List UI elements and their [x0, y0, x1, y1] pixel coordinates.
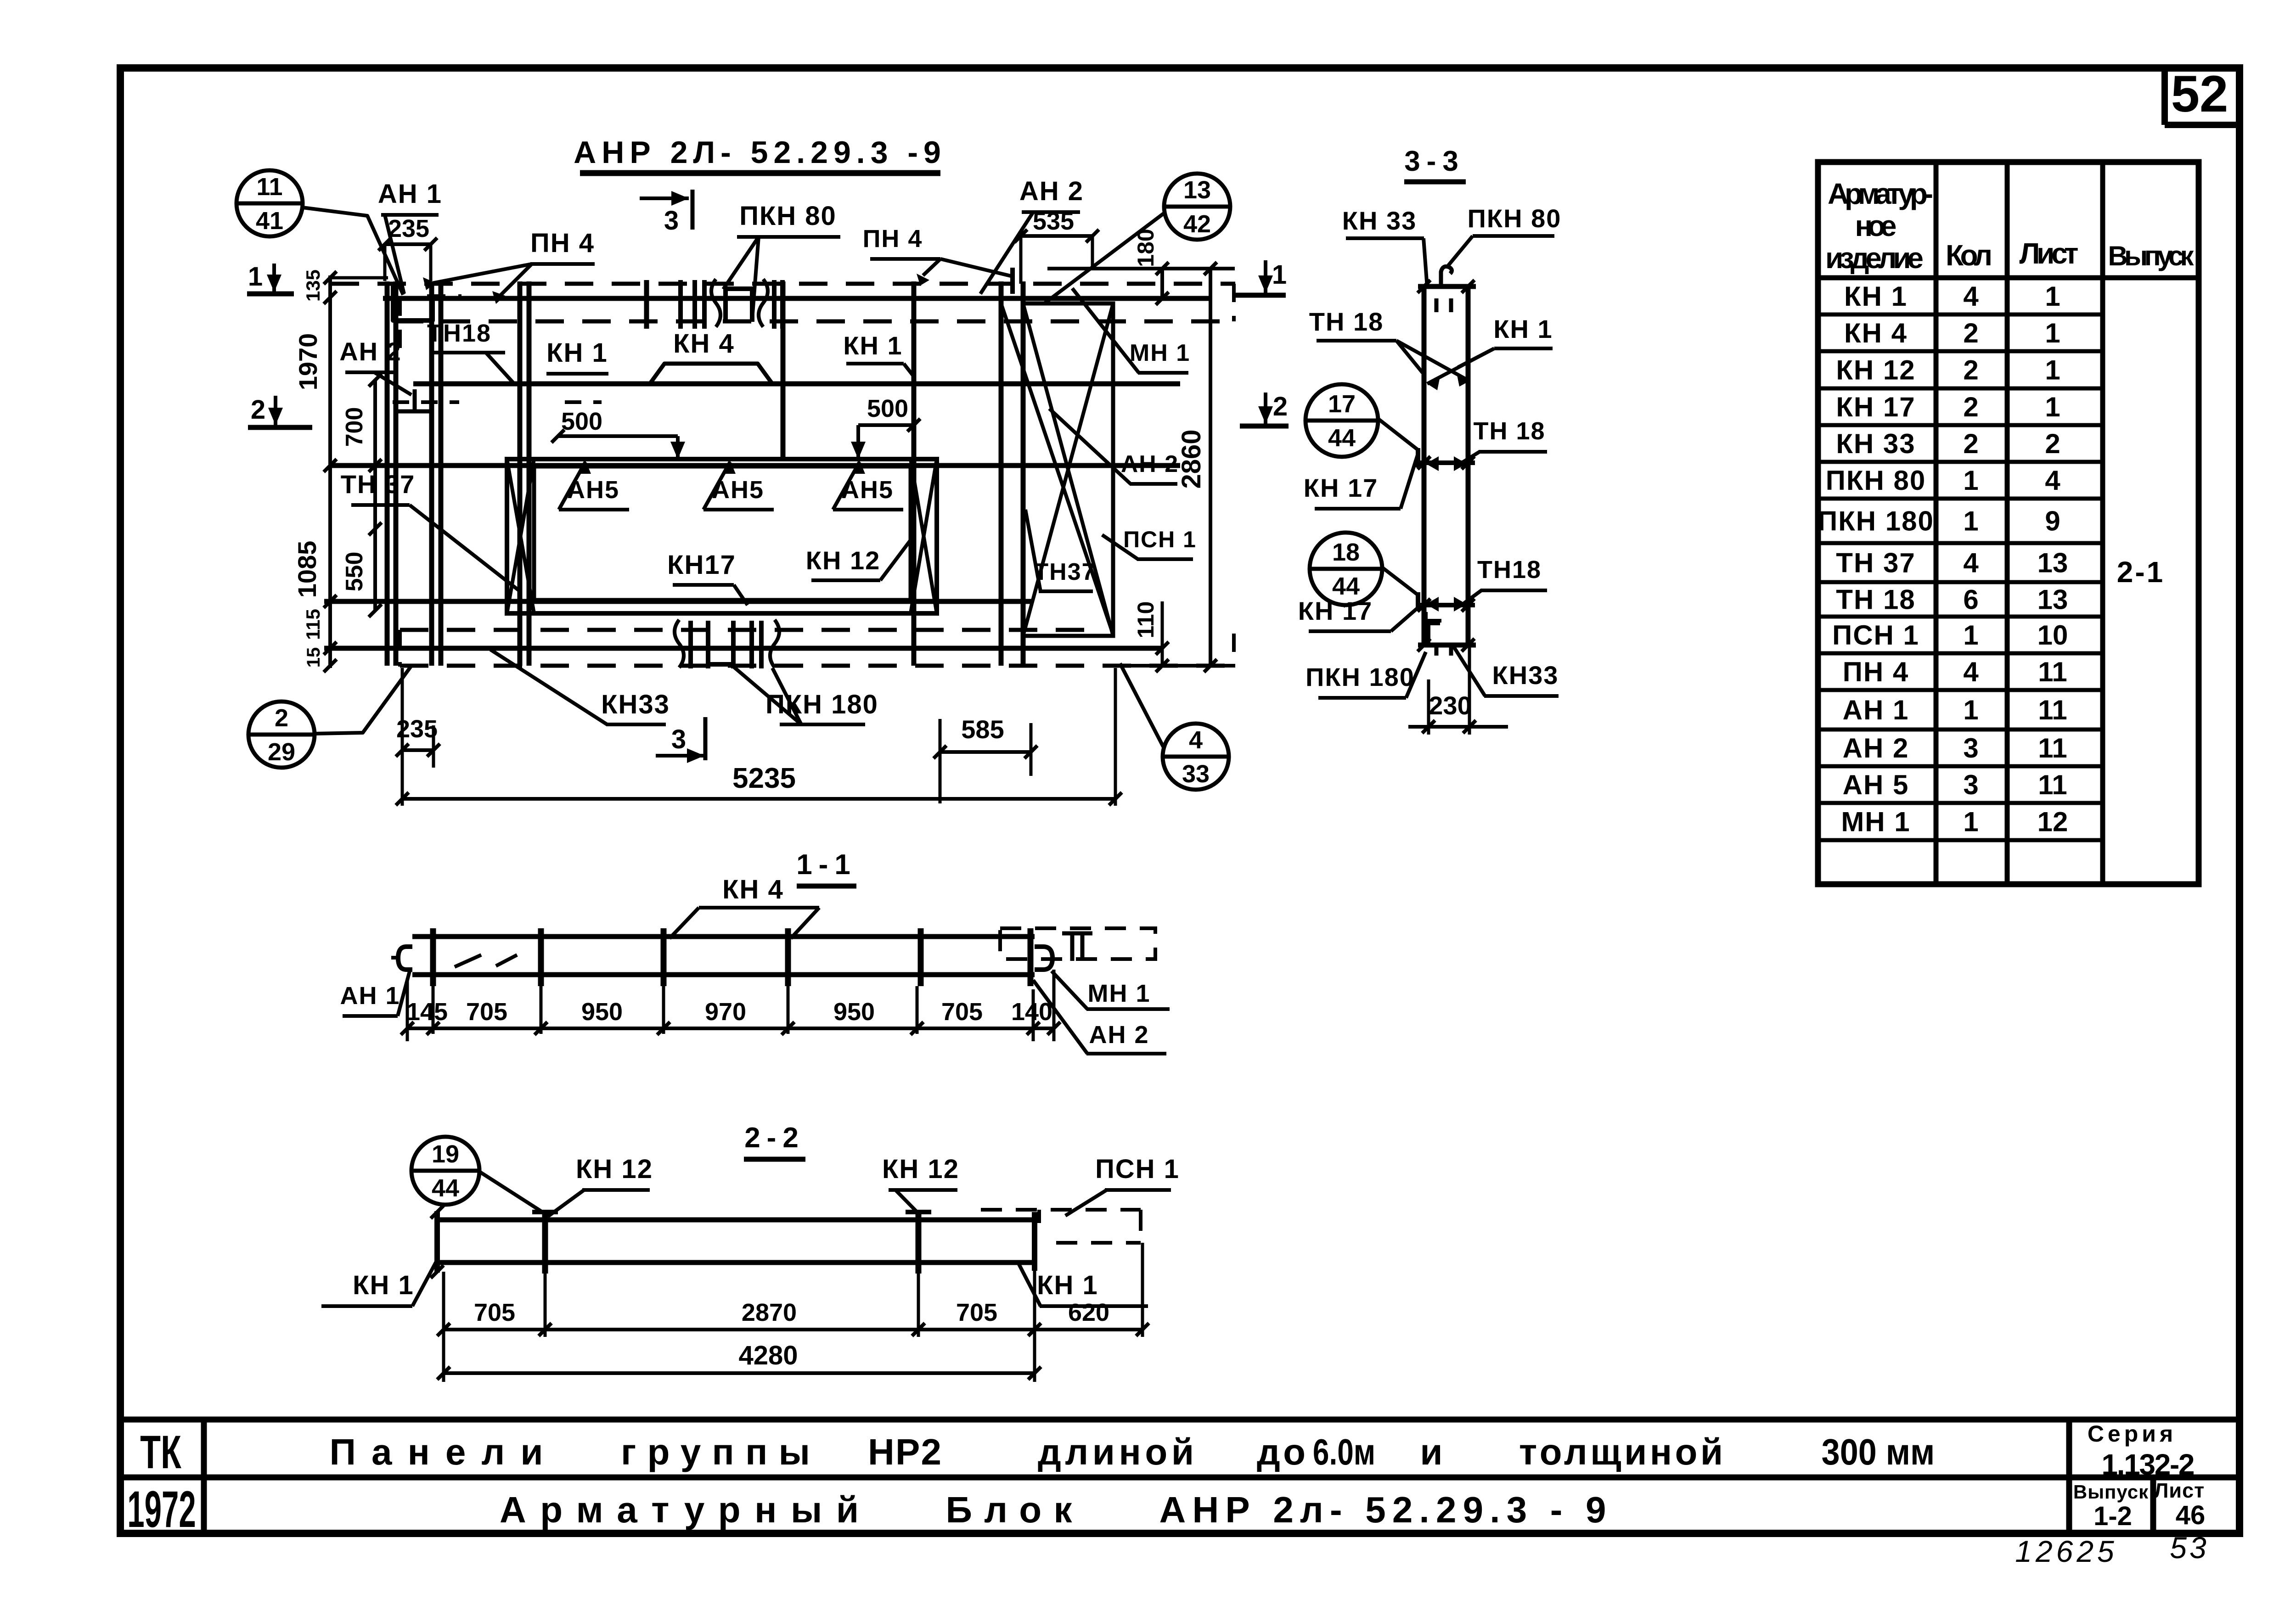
- svg-text:ПКН 180: ПКН 180: [1306, 662, 1415, 691]
- svg-text:КН 33: КН 33: [1836, 428, 1915, 459]
- svg-text:3-3: 3-3: [1404, 146, 1465, 177]
- svg-text:620: 620: [1068, 1299, 1109, 1326]
- svg-text:2-2: 2-2: [744, 1122, 805, 1154]
- svg-text:ТН18: ТН18: [427, 320, 491, 347]
- svg-text:17: 17: [1328, 390, 1356, 418]
- svg-text:550: 550: [341, 552, 368, 592]
- svg-text:ПКН 180: ПКН 180: [765, 690, 878, 719]
- svg-text:235: 235: [388, 215, 429, 242]
- svg-text:АН 2: АН 2: [1121, 451, 1179, 477]
- svg-text:33: 33: [1182, 760, 1210, 788]
- svg-text:700: 700: [341, 407, 368, 447]
- svg-text:2-1: 2-1: [2117, 556, 2165, 589]
- svg-text:ПКН 180: ПКН 180: [1818, 506, 1934, 537]
- svg-text:МН 1: МН 1: [1130, 340, 1190, 366]
- svg-text:18: 18: [1332, 539, 1360, 566]
- svg-text:КН 33: КН 33: [1342, 206, 1417, 235]
- svg-text:Выпуск: Выпуск: [2073, 1481, 2149, 1503]
- svg-text:13: 13: [2037, 548, 2068, 578]
- svg-text:КН 17: КН 17: [1298, 596, 1373, 625]
- svg-text:12: 12: [2037, 807, 2068, 837]
- svg-text:АН 1: АН 1: [378, 179, 442, 209]
- svg-text:ПКН 80: ПКН 80: [1468, 204, 1562, 233]
- svg-text:135: 135: [302, 269, 324, 302]
- svg-text:29: 29: [268, 738, 295, 766]
- svg-text:950: 950: [833, 998, 875, 1026]
- svg-text:705: 705: [474, 1299, 515, 1326]
- svg-text:950: 950: [581, 998, 623, 1026]
- svg-text:11: 11: [2038, 657, 2067, 687]
- svg-text:705: 705: [956, 1299, 997, 1326]
- svg-text:ПКН 80: ПКН 80: [1826, 465, 1926, 496]
- svg-text:180: 180: [1133, 229, 1159, 267]
- svg-text:10: 10: [2037, 620, 2068, 651]
- svg-text:КН 4: КН 4: [673, 329, 735, 359]
- svg-text:КН 1: КН 1: [353, 1270, 414, 1300]
- svg-text:ное: ное: [1855, 209, 1897, 242]
- svg-text:КН 1: КН 1: [1844, 281, 1908, 312]
- svg-text:ТН18: ТН18: [1477, 556, 1542, 584]
- svg-text:КН 4: КН 4: [1844, 318, 1908, 348]
- svg-text:АНР 2Л- 52.29.3 -9: АНР 2Л- 52.29.3 -9: [574, 135, 946, 170]
- svg-text:ПН 4: ПН 4: [1843, 657, 1909, 687]
- svg-text:толщиной: толщиной: [1519, 1431, 1723, 1472]
- svg-text:2: 2: [2045, 428, 2060, 459]
- svg-text:АН 5: АН 5: [1843, 769, 1909, 800]
- svg-text:41: 41: [256, 207, 283, 235]
- svg-text:3: 3: [1963, 769, 1978, 800]
- svg-text:1: 1: [2045, 318, 2060, 348]
- svg-text:КН 12: КН 12: [882, 1154, 959, 1184]
- svg-text:4280: 4280: [738, 1341, 798, 1370]
- svg-text:13: 13: [1183, 176, 1211, 204]
- svg-text:1970: 1970: [293, 333, 322, 391]
- svg-text:ПСН 1: ПСН 1: [1832, 620, 1919, 651]
- svg-text:Лист: Лист: [2154, 1479, 2205, 1502]
- svg-text:44: 44: [1332, 572, 1360, 600]
- svg-text:ПН 4: ПН 4: [530, 228, 595, 258]
- svg-text:585: 585: [961, 715, 1004, 744]
- svg-text:1: 1: [2045, 392, 2060, 422]
- svg-text:1: 1: [1272, 260, 1287, 290]
- svg-text:Кол: Кол: [1946, 239, 1992, 272]
- svg-text:6: 6: [1963, 584, 1978, 615]
- svg-text:АН 2: АН 2: [1843, 733, 1909, 763]
- svg-text:Выпуск: Выпуск: [2108, 241, 2195, 271]
- svg-text:11: 11: [256, 173, 282, 201]
- svg-text:ТН 37: ТН 37: [341, 470, 416, 499]
- svg-text:ТН 18: ТН 18: [1473, 417, 1545, 445]
- svg-text:ТН 18: ТН 18: [1309, 307, 1384, 336]
- svg-text:КН 12: КН 12: [806, 546, 880, 575]
- svg-text:5235: 5235: [732, 763, 796, 794]
- svg-text:АН 2: АН 2: [1089, 1021, 1149, 1049]
- svg-text:КН17: КН17: [667, 550, 736, 580]
- svg-text:НР2: НР2: [868, 1431, 941, 1472]
- svg-text:1: 1: [1963, 465, 1978, 496]
- svg-text:АНР 2л- 52.29.3 - 9: АНР 2л- 52.29.3 - 9: [1159, 1489, 1606, 1530]
- svg-text:АН 2: АН 2: [1019, 176, 1084, 206]
- svg-text:1085: 1085: [293, 541, 321, 598]
- svg-text:4: 4: [1963, 548, 1979, 578]
- svg-text:15: 15: [304, 647, 324, 668]
- svg-text:9: 9: [2045, 506, 2060, 537]
- svg-text:6.0м: 6.0м: [1313, 1431, 1375, 1472]
- svg-text:КН 1: КН 1: [1493, 314, 1553, 343]
- svg-text:ПКН 80: ПКН 80: [739, 201, 837, 231]
- svg-text:КН 1: КН 1: [1037, 1270, 1098, 1300]
- svg-text:КН 1: КН 1: [843, 331, 902, 360]
- svg-text:2860: 2860: [1176, 429, 1206, 488]
- svg-text:2: 2: [1963, 355, 1978, 386]
- svg-text:Лист: Лист: [2020, 237, 2079, 270]
- svg-text:500: 500: [867, 395, 908, 422]
- svg-text:1972: 1972: [127, 1480, 196, 1538]
- svg-text:535: 535: [1033, 208, 1074, 235]
- svg-text:КН 12: КН 12: [1836, 355, 1915, 386]
- svg-text:ПСН 1: ПСН 1: [1095, 1154, 1180, 1184]
- svg-text:АН 1: АН 1: [340, 982, 400, 1010]
- svg-text:МН 1: МН 1: [1841, 807, 1910, 837]
- svg-text:110: 110: [1133, 601, 1159, 639]
- svg-text:изделие: изделие: [1825, 241, 1924, 275]
- svg-text:2870: 2870: [742, 1299, 797, 1326]
- svg-text:1: 1: [1963, 695, 1978, 725]
- svg-text:ПСН 1: ПСН 1: [1123, 527, 1197, 552]
- svg-text:230: 230: [1429, 691, 1471, 720]
- svg-text:300 мм: 300 мм: [1822, 1432, 1935, 1473]
- svg-text:КН 4: КН 4: [722, 875, 784, 904]
- svg-text:4: 4: [1963, 281, 1979, 312]
- svg-text:2: 2: [275, 704, 288, 732]
- svg-text:3: 3: [671, 724, 686, 754]
- svg-text:1: 1: [1963, 506, 1978, 537]
- svg-text:13: 13: [2037, 584, 2068, 615]
- svg-text:ТН 37: ТН 37: [1836, 548, 1915, 578]
- svg-text:115: 115: [302, 609, 324, 640]
- svg-text:140: 140: [1011, 998, 1052, 1026]
- svg-text:2: 2: [1963, 392, 1978, 422]
- svg-text:44: 44: [1328, 424, 1356, 452]
- svg-text:4: 4: [1963, 657, 1979, 687]
- svg-text:3: 3: [1963, 733, 1978, 763]
- svg-text:ТН37: ТН37: [1034, 559, 1096, 585]
- svg-text:52: 52: [2171, 65, 2228, 123]
- svg-text:КН 1: КН 1: [546, 338, 608, 368]
- svg-text:3: 3: [664, 206, 679, 236]
- svg-text:46: 46: [2176, 1500, 2206, 1530]
- svg-text:1: 1: [2045, 355, 2060, 386]
- svg-text:КН 12: КН 12: [576, 1154, 653, 1184]
- svg-text:145: 145: [406, 998, 448, 1026]
- svg-text:11: 11: [2038, 695, 2067, 725]
- svg-text:1-2: 1-2: [2093, 1501, 2132, 1531]
- svg-text:1: 1: [2045, 281, 2060, 312]
- svg-text:19: 19: [432, 1140, 459, 1168]
- svg-text:и: и: [1420, 1431, 1442, 1472]
- svg-text:2: 2: [251, 395, 265, 425]
- svg-text:ПН 4: ПН 4: [863, 225, 923, 253]
- svg-text:КН33: КН33: [1492, 661, 1559, 690]
- svg-text:АН 2: АН 2: [339, 337, 402, 366]
- svg-text:МН 1: МН 1: [1087, 980, 1150, 1007]
- svg-text:500: 500: [561, 408, 602, 435]
- svg-text:ТН 18: ТН 18: [1836, 584, 1915, 615]
- svg-text:КН 17: КН 17: [1836, 392, 1915, 422]
- svg-text:42: 42: [1183, 210, 1211, 238]
- svg-text:ТК: ТК: [140, 1426, 181, 1478]
- svg-text:1.132-2: 1.132-2: [2102, 1448, 2195, 1481]
- svg-text:Арматур-: Арматур-: [1828, 177, 1933, 210]
- svg-text:АН 1: АН 1: [1843, 695, 1909, 725]
- svg-text:1: 1: [248, 262, 263, 292]
- svg-text:705: 705: [466, 998, 507, 1026]
- svg-text:44: 44: [432, 1174, 459, 1202]
- svg-text:2: 2: [1963, 428, 1978, 459]
- svg-text:11: 11: [2038, 733, 2067, 763]
- svg-text:КН33: КН33: [601, 690, 670, 719]
- svg-text:1: 1: [1963, 620, 1978, 651]
- svg-text:53: 53: [2170, 1531, 2209, 1565]
- svg-text:12625: 12625: [2015, 1534, 2118, 1568]
- svg-text:705: 705: [941, 998, 983, 1026]
- svg-text:группы: группы: [621, 1431, 810, 1472]
- svg-text:4: 4: [2045, 465, 2060, 496]
- svg-text:1: 1: [1963, 807, 1978, 837]
- svg-text:Серия: Серия: [2088, 1421, 2177, 1447]
- svg-text:11: 11: [2038, 769, 2067, 800]
- svg-text:4: 4: [1189, 726, 1203, 754]
- svg-text:2: 2: [1273, 392, 1288, 421]
- svg-text:КН 17: КН 17: [1304, 473, 1378, 502]
- svg-text:2: 2: [1963, 318, 1978, 348]
- svg-text:970: 970: [705, 998, 746, 1026]
- svg-text:1-1: 1-1: [796, 849, 857, 881]
